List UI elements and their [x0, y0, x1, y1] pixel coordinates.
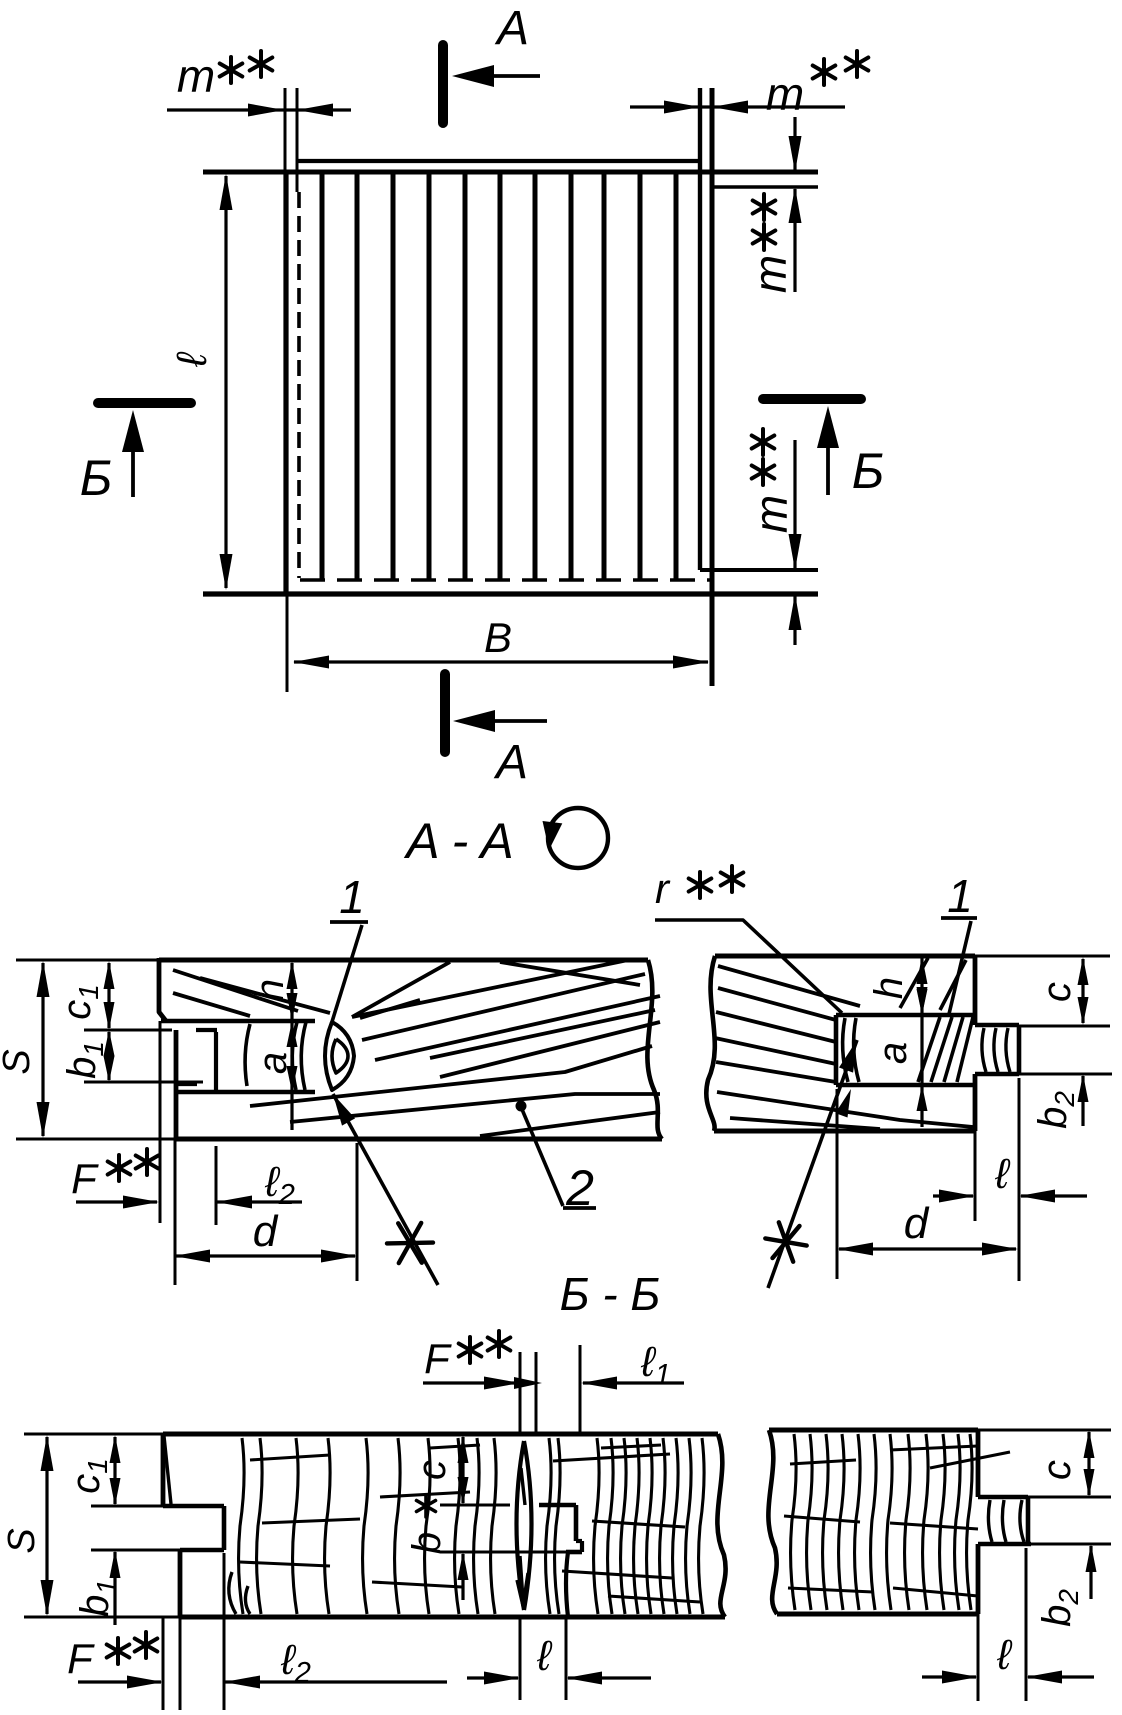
AA-right grain line 1	[718, 966, 860, 1006]
board joint line 1	[320, 174, 325, 580]
stars of m top-left	[220, 57, 243, 83]
dimension B right arrow	[673, 656, 709, 669]
AA-right c arrows	[1078, 957, 1089, 985]
BB-left grain vertical 9	[474, 1438, 480, 1614]
AA-left l2 arrow	[216, 1196, 252, 1209]
svg-text:d: d	[253, 1207, 279, 1256]
AA-left seam star leader line	[333, 1094, 438, 1285]
stars of m right-top	[753, 224, 776, 250]
svg-text:c: c	[410, 1460, 454, 1480]
panel top-right reveal line	[712, 185, 818, 188]
view rotation circle	[548, 808, 608, 868]
leader 2 dot	[516, 1101, 527, 1112]
BB-left grain horizontals	[250, 1455, 330, 1460]
BB-mid extension l bottom right	[565, 1617, 568, 1700]
section marker B-left arrow line	[131, 444, 135, 497]
dimension m top-right right-point arrow	[664, 101, 700, 114]
BB-left step wall	[222, 1506, 227, 1550]
AA-left top face	[159, 958, 648, 963]
BB-mid seam lens left curve	[517, 1441, 525, 1610]
BB-left wavy break edge	[717, 1434, 725, 1617]
AA-right extension tongue top	[1019, 1025, 1110, 1028]
BB-mid seam inner marks	[517, 1468, 528, 1606]
AA-left F stars	[108, 1155, 131, 1181]
BB-mid step jog horizontal	[576, 1539, 582, 1543]
AA-left h arrows	[287, 961, 298, 989]
BB-left grain vertical 14	[608, 1438, 614, 1614]
svg-text:Б: Б	[80, 450, 113, 506]
AA-right a arrows	[917, 989, 928, 1015]
BB-right dimension c line	[1087, 1432, 1090, 1495]
AA-right h arrows	[917, 956, 928, 984]
board joint line 8	[569, 174, 574, 580]
AA-right dimension d line	[839, 1247, 1016, 1250]
AA-right wavy break edge	[706, 956, 715, 1131]
BB-left dimension b1 line	[113, 1552, 116, 1625]
AA-right dimension c line	[1081, 959, 1084, 1023]
leader 2 line	[521, 1107, 563, 1206]
AA-left grain line 10	[480, 1112, 660, 1136]
svg-text:1: 1	[339, 871, 365, 923]
svg-text:m: m	[745, 495, 797, 533]
AA-left groove bottom line	[175, 1090, 315, 1095]
BB-left F arrow	[127, 1676, 163, 1689]
AA-right grain line 6	[717, 1092, 973, 1127]
svg-text:Б: Б	[852, 443, 885, 499]
AA-right dimension a line	[920, 1017, 923, 1127]
panel top edge	[203, 170, 818, 175]
panel bottom edge	[203, 591, 818, 596]
AA-left grain line 5	[362, 974, 645, 1040]
svg-text:2: 2	[565, 1160, 594, 1216]
dimension L bottom arrow	[220, 554, 233, 590]
svg-text:r: r	[655, 865, 671, 912]
dimension m right-top lower line	[793, 189, 796, 292]
AA-left dimension a line	[290, 1023, 293, 1130]
board joint line 6	[498, 174, 503, 580]
BB-right wavy break edge	[768, 1430, 777, 1614]
svg-text:1: 1	[947, 870, 973, 922]
BB-left bottom face extension	[24, 1616, 180, 1619]
svg-text:m: m	[177, 50, 215, 102]
AA-right dimension h line	[920, 958, 923, 1013]
BB-left grain vertical 17	[647, 1438, 653, 1614]
svg-text:A: A	[494, 2, 529, 55]
section marker A top arrowhead	[452, 65, 494, 87]
AA-left wavy break edge	[647, 960, 662, 1139]
BB-mid lower seam wavy	[566, 1552, 568, 1617]
AA-left left face upper	[159, 958, 166, 1021]
dimension m right-top down arrow	[789, 136, 802, 172]
BB-right grain vertical 8	[905, 1434, 911, 1610]
BB-mid l1 arrow	[581, 1377, 617, 1390]
BB-left grain vertical 18	[660, 1438, 666, 1614]
BB-right grain vertical 7	[887, 1434, 893, 1610]
board joint line 9	[602, 174, 607, 580]
BB-mid extension l bottom left	[519, 1617, 522, 1700]
dimension m right-bottom up arrow	[789, 594, 802, 630]
AA-right seam star arrowhead mid	[835, 1089, 851, 1118]
dimension m top-left line	[167, 108, 351, 111]
svg-text:b: b	[405, 1532, 449, 1554]
svg-text:F: F	[424, 1335, 452, 1382]
board joint line 2	[355, 174, 360, 580]
AA-right steep grain above mortise	[900, 958, 928, 1008]
AA-left dimension b1 line	[107, 1032, 110, 1080]
dimension m top-left right-point arrow	[248, 104, 284, 117]
AA-right tongue top	[975, 1023, 1019, 1028]
AA-left F arrow	[123, 1196, 159, 1209]
board joint line 7	[533, 174, 538, 580]
BB-mid dimension l1 line	[583, 1381, 684, 1384]
BB-right tongue top	[978, 1495, 1028, 1500]
AA-left dimension h line	[290, 963, 293, 1019]
AA-left lower left face extension	[174, 1139, 177, 1285]
section marker A bottom arrow line	[484, 719, 547, 723]
BB-mid step top line	[539, 1503, 576, 1508]
AA-left dimension F line	[76, 1200, 157, 1203]
stars of m top-right	[813, 59, 836, 85]
BB-left extension F left	[162, 1617, 165, 1710]
BB-left grain vertical 4	[325, 1438, 331, 1614]
AA-left dimension c1 line	[107, 963, 110, 1028]
AA-left grain line 6	[375, 996, 660, 1060]
AA-left dimension d line	[176, 1254, 355, 1257]
AA-left S arrows	[37, 961, 50, 997]
BB-left bottom face	[180, 1615, 725, 1620]
AA-left b1 arrows	[104, 1030, 115, 1056]
dimension m right-bottom down arrow	[789, 534, 802, 570]
svg-text:h: h	[867, 977, 911, 999]
svg-text:a: a	[251, 1052, 295, 1074]
board joint line 3	[391, 174, 396, 580]
BB-left extension l2	[223, 1553, 226, 1710]
AA-left grain line 8	[250, 1046, 652, 1106]
BB-right tongue seam wavy	[1020, 1500, 1024, 1542]
board joint line 4	[427, 174, 432, 580]
svg-text:b1: b1	[60, 1041, 109, 1079]
BB-right grain vertical 5	[855, 1434, 861, 1610]
AA-left dimension S line	[41, 963, 44, 1136]
AA-left grain line 3	[352, 962, 450, 1017]
AA-right d arrows	[837, 1243, 873, 1256]
AA-right bottom face	[714, 1129, 975, 1134]
BB-right bottom face	[777, 1612, 978, 1617]
AA-right tongue bottom	[975, 1072, 1019, 1077]
BB-right extension c bottom	[1028, 1496, 1111, 1499]
section marker B-right arrowhead	[817, 406, 839, 448]
extension line top-left a	[284, 88, 287, 172]
svg-text:A: A	[493, 736, 528, 789]
svg-text:ℓ: ℓ	[536, 1632, 553, 1679]
AA-left grain line 9	[290, 1094, 660, 1122]
svg-text:m: m	[744, 255, 796, 293]
AA-left extension b1 bottom line	[84, 1081, 203, 1084]
svg-text:m: m	[766, 68, 804, 120]
BB-right grain vertical 12	[967, 1434, 973, 1610]
AA-left bottom face	[175, 1137, 662, 1142]
BB-left grain vertical 5	[363, 1438, 369, 1614]
AA-right extension right face	[974, 1131, 977, 1221]
AA-right top face extension	[975, 955, 1110, 958]
BB-right tongue bottom	[978, 1542, 1031, 1547]
section marker B-right bar	[763, 394, 861, 404]
BB-right grain vertical 1	[791, 1434, 797, 1610]
svg-text:B: B	[484, 614, 512, 661]
leader 1 right underline	[941, 916, 977, 920]
AA-left c1 arrows	[104, 961, 115, 989]
AA-left extension c1-b1 line	[84, 1029, 172, 1032]
BB-right grain vertical 3	[823, 1434, 829, 1610]
svg-text:a: a	[871, 1042, 915, 1064]
BB-mid extension l1 top	[579, 1345, 582, 1433]
AA-right mortise top	[836, 1013, 975, 1018]
AA-right tongue tip face	[1017, 1025, 1022, 1074]
svg-text:c1: c1	[64, 1458, 113, 1494]
dimension L line	[224, 176, 227, 588]
BB-mid l arrows	[484, 1672, 520, 1685]
BB-left grain vertical 19	[673, 1438, 679, 1614]
BB-mid c arrows	[458, 1435, 469, 1463]
BB-left grain vertical 3	[293, 1438, 299, 1614]
AA-right mortise left wall	[834, 1015, 839, 1085]
AA-left groove back wall	[214, 1032, 218, 1090]
board joint line 11	[674, 174, 679, 580]
BB-mid dimension F top line	[423, 1381, 518, 1384]
BB-mid step bottom line	[566, 1550, 582, 1555]
BB-mid F top stars	[459, 1337, 482, 1363]
hidden dashed bottom rail line	[300, 578, 710, 582]
BB-mid b arrow	[458, 1552, 469, 1580]
BB-right b2 arrow	[1086, 1544, 1097, 1572]
svg-text:ℓ: ℓ	[994, 1150, 1011, 1197]
panel left edge	[283, 172, 288, 594]
BB-mid b star	[417, 1495, 436, 1517]
BB-right c arrows	[1084, 1430, 1095, 1458]
BB-left step bottom	[180, 1548, 224, 1553]
BB-right dimension b2 line	[1089, 1546, 1092, 1599]
AA-right right face upper	[973, 956, 978, 1025]
AA-left lower left face	[174, 1030, 179, 1139]
BB-right dimension l line	[922, 1675, 976, 1678]
BB-mid F top arrow	[484, 1377, 520, 1390]
AA-right grain line 4	[715, 1038, 836, 1064]
AA-left knot oval inner	[332, 1039, 348, 1073]
AA-right seam star leader line	[768, 1040, 857, 1288]
BB-right grain vertical 9	[923, 1434, 929, 1610]
svg-text:d: d	[904, 1199, 930, 1248]
AA-left bottom face extension	[16, 1138, 175, 1141]
AA-right seam star	[765, 1222, 806, 1261]
BB-left dimension F line	[78, 1680, 161, 1683]
BB-right right face lower	[976, 1544, 981, 1614]
section marker B-left arrowhead	[122, 410, 144, 452]
section marker A top arrow line	[482, 74, 540, 78]
dimension m top-right line	[630, 105, 845, 108]
hidden dashed line left board	[297, 192, 301, 578]
AA-left dimension l2 line	[217, 1200, 302, 1203]
extension line top-left b	[296, 88, 299, 192]
BB-left grain vertical 11	[546, 1438, 552, 1614]
svg-text:b1: b1	[73, 1579, 122, 1617]
panel left edge extension for B dim	[286, 594, 289, 692]
BB-left b1 arrow	[110, 1550, 121, 1578]
AA-left grain line 7	[440, 1022, 660, 1077]
BB-mid extension c top	[440, 1504, 510, 1507]
svg-text:F: F	[67, 1635, 95, 1682]
svg-text:ℓ2: ℓ2	[280, 1636, 311, 1689]
BB-mid F top second arrow	[514, 1377, 542, 1389]
BB-right right face upper	[976, 1430, 981, 1497]
stars of r label	[689, 872, 712, 898]
BB-left extension F right	[179, 1617, 182, 1710]
AA-left grain line 1	[173, 970, 298, 1011]
AA-right grain line 2	[718, 988, 836, 1020]
dimension m top-left left-point arrow	[297, 104, 333, 117]
AA-right l arrows	[939, 1190, 975, 1203]
svg-text:b2: b2	[1035, 1589, 1084, 1627]
BB-right grain vertical 6	[871, 1434, 877, 1610]
AA-right dimension b2 line	[1081, 1076, 1084, 1126]
AA-left grain line 4	[352, 960, 628, 1017]
BB-left grain vertical 7	[425, 1438, 431, 1614]
AA-left grain line 13	[200, 978, 330, 1013]
AA-right mortise bottom	[836, 1083, 975, 1088]
dimension m right-top upper line	[793, 117, 796, 170]
BB-left dimension l2 line	[225, 1680, 447, 1683]
svg-text:b2: b2	[1031, 1091, 1080, 1129]
AA-left knot oval outer	[325, 1022, 354, 1090]
bottom right board end line	[700, 568, 818, 572]
AA-right dimension l line	[933, 1194, 973, 1197]
AA-left top face extension	[16, 959, 159, 962]
BB-left grain vertical 1	[239, 1438, 245, 1614]
BB-right top face extension	[978, 1429, 1111, 1432]
svg-text:S: S	[0, 1049, 38, 1074]
BB-right tongue tip face	[1026, 1497, 1031, 1544]
BB-right tongue grain	[988, 1500, 992, 1542]
leader 1 right line	[949, 921, 971, 1014]
BB-right grain vertical 2	[807, 1434, 813, 1610]
dimension m right-bottom upper line	[793, 440, 796, 568]
section marker A bottom bar	[440, 674, 450, 752]
BB-left top face	[163, 1432, 718, 1437]
svg-text:ℓ1: ℓ1	[640, 1338, 671, 1391]
svg-text:c: c	[1035, 1460, 1079, 1480]
AA-left groove top lip line	[161, 1019, 315, 1024]
AA-left end grain arcs small	[245, 1024, 250, 1086]
svg-text:h: h	[248, 979, 292, 1001]
BB-left grain vertical 16	[634, 1438, 640, 1614]
leader line r	[655, 920, 842, 1013]
leader 1 left underline	[330, 920, 368, 924]
BB-left small arcs near profile	[229, 1572, 236, 1614]
dimension m top-right left-point arrow	[712, 101, 748, 114]
AA-right extension tongue tip	[1018, 1078, 1021, 1281]
AA-left grain line 14	[360, 1000, 420, 1018]
AA-right tongue end grain arcs	[982, 1028, 986, 1072]
panel top rail upper edge	[297, 159, 700, 163]
BB-left F stars	[107, 1638, 130, 1664]
AA-right grain line 5	[716, 1062, 836, 1082]
BB-left grain vertical 15	[621, 1438, 627, 1614]
AA-right extension mortise left	[836, 1089, 839, 1279]
BB-left l2 arrow	[224, 1676, 260, 1689]
svg-text:c1: c1	[55, 984, 104, 1020]
board joint line 5	[463, 174, 468, 580]
section marker B-right arrow line	[826, 440, 830, 495]
BB-left grain vertical 13	[594, 1438, 600, 1614]
AA-left a arrows	[287, 1021, 298, 1047]
BB-right top face	[769, 1428, 978, 1433]
BB-left top face extension	[24, 1433, 163, 1436]
BB-left left face upper slant	[164, 1436, 171, 1504]
BB-left grain vertical 21	[699, 1438, 705, 1614]
AA-right grain line 7	[730, 1118, 880, 1129]
BB-left grain vertical 2	[257, 1438, 263, 1614]
AA-right end grain arcs in mortise	[843, 1018, 848, 1082]
BB-right l arrows	[942, 1671, 978, 1684]
leader 1 left line	[331, 925, 362, 1025]
AA-left lip step upper	[196, 1028, 217, 1032]
AA-left grain line 11	[430, 1010, 655, 1058]
svg-text:ℓ: ℓ	[168, 351, 215, 368]
section marker B-left bar	[98, 398, 191, 408]
svg-text:Б - Б: Б - Б	[560, 1268, 661, 1320]
AA-left lip step lower	[175, 1082, 197, 1086]
BB-right extension b2 bottom	[1031, 1543, 1111, 1546]
dimension B left arrow	[293, 656, 329, 669]
BB-right grain vertical 4	[839, 1434, 845, 1610]
BB-mid extension b bottom	[440, 1551, 566, 1554]
board joint line 10	[638, 174, 643, 580]
BB-left grain vertical 6	[395, 1438, 401, 1614]
AA-left seam star	[387, 1223, 433, 1263]
AA-left left face extension down	[159, 1021, 162, 1223]
AA-right grain line 3	[716, 1012, 836, 1042]
BB-left step top	[163, 1504, 224, 1509]
dimension B line	[294, 660, 708, 663]
BB-left c1 arrows	[110, 1435, 121, 1463]
svg-text:F: F	[71, 1155, 99, 1202]
right board edge line	[698, 88, 702, 570]
BB-mid dimension c line	[461, 1437, 464, 1503]
BB-left left face lower	[178, 1550, 183, 1617]
BB-left dimension c1 line	[113, 1437, 116, 1504]
BB-left extension b1 bottom	[91, 1549, 180, 1552]
svg-text:ℓ2: ℓ2	[264, 1158, 295, 1211]
AA-right steep grain in mortise	[918, 1017, 940, 1082]
AA-left seam star arrowhead	[333, 1094, 355, 1126]
AA-left extension line d right	[356, 1143, 359, 1281]
BB-right grain vertical 10	[940, 1434, 946, 1610]
AA-left extension line for l2	[215, 1146, 218, 1225]
AA-left grain line 12	[500, 962, 640, 985]
BB-mid extension F top right	[535, 1352, 538, 1433]
BB-right grain horizontals	[790, 1460, 856, 1464]
leader 2 underline	[563, 1206, 596, 1210]
BB-left left face upper	[161, 1434, 166, 1506]
BB-left S arrows	[41, 1435, 54, 1471]
AA-left grain line 2	[173, 993, 250, 1016]
dimension m right-top up arrow	[789, 187, 802, 223]
BB-right extension l right	[1025, 1548, 1028, 1701]
BB-left grain vertical 8	[455, 1438, 461, 1614]
svg-text:A - A: A - A	[403, 813, 513, 869]
AA-right extension tongue bottom	[1019, 1073, 1112, 1076]
BB-mid seam lens right curve	[524, 1441, 532, 1610]
BB-mid dimension b line	[461, 1554, 464, 1600]
